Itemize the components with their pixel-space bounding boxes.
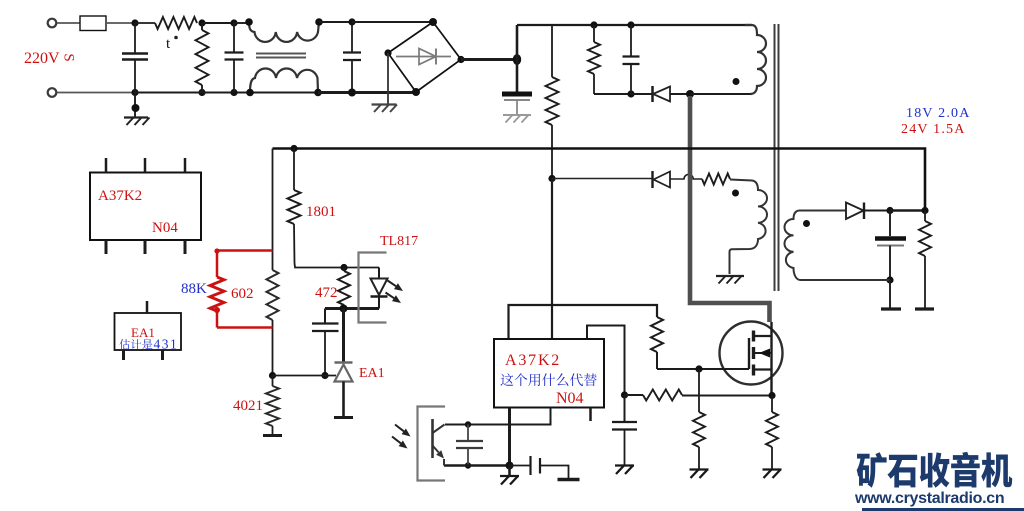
- wire: [516, 25, 519, 60]
- svg-text:431: 431: [154, 337, 179, 352]
- node B+: [513, 54, 521, 65]
- shunt regulator EA1 (431): [342, 309, 345, 363]
- transformer core: [774, 24, 776, 291]
- ground (C10): [615, 464, 634, 466]
- svg-text:A37K2: A37K2: [505, 352, 561, 369]
- resistor R13 (source): [771, 396, 773, 413]
- node: [506, 462, 514, 470]
- diode D4 (output rectifier): [846, 203, 864, 220]
- ground (source): [763, 468, 782, 470]
- wire: [690, 93, 750, 95]
- dot (aux polarity): [732, 190, 739, 197]
- resistor R14 88K (red mod): [217, 249, 273, 251]
- dot (primary polarity): [733, 78, 740, 85]
- optocoupler U2 phototransistor: [418, 407, 446, 481]
- wire: [800, 279, 890, 281]
- diode D3 (aux rectifier): [651, 171, 653, 188]
- terminal (out-): [881, 307, 901, 310]
- wire: [352, 21, 433, 23]
- IC U3 A37K2: [494, 339, 604, 408]
- resistor R7 602: [267, 270, 279, 320]
- resistor R11 (gate pulldown): [698, 369, 700, 412]
- transformer T1 primary: [745, 25, 766, 94]
- wire: [552, 178, 652, 180]
- ground (IC): [508, 466, 511, 476]
- node: [321, 372, 328, 379]
- node: [131, 19, 138, 26]
- resistor R9 1801: [293, 149, 295, 191]
- wire: [444, 464, 510, 467]
- wire: [106, 22, 135, 24]
- node: [230, 19, 237, 26]
- wire: [135, 92, 318, 94]
- ground (bulk): [503, 114, 531, 116]
- node: [340, 305, 348, 313]
- wire (gate drive): [509, 305, 658, 339]
- dot (secondary polarity): [803, 220, 810, 227]
- IC box A37K2 N04 (reference): [90, 173, 201, 241]
- wire: [273, 375, 337, 377]
- pin (U3 fb): [445, 408, 551, 425]
- wire: [594, 93, 631, 95]
- svg-text:4021: 4021: [233, 398, 263, 414]
- terminal J1 (line): [48, 19, 57, 28]
- capacitor C5 (snubber): [630, 25, 632, 56]
- LED D5: [378, 268, 380, 279]
- wire: [319, 21, 352, 23]
- ground (aux): [716, 275, 744, 277]
- resistor R6 (load): [924, 211, 926, 222]
- capacitor C3: [351, 22, 353, 52]
- wire (VCC to IC): [551, 179, 553, 340]
- wire: [57, 92, 135, 94]
- wire (feedback rail): [273, 149, 926, 211]
- wire: [890, 209, 925, 212]
- node: [921, 207, 928, 214]
- pin (U3 nc): [589, 408, 592, 422]
- svg-text:S: S: [61, 53, 77, 61]
- node: [340, 264, 347, 271]
- svg-text:EA1: EA1: [131, 325, 155, 340]
- wire (sense pin): [587, 326, 625, 396]
- svg-text:EA1: EA1: [359, 366, 385, 381]
- node source: [768, 392, 775, 399]
- node: [590, 21, 597, 28]
- wire (hop over SW): [670, 174, 702, 179]
- svg-text:N04: N04: [556, 390, 584, 407]
- terminal (out+): [915, 307, 934, 310]
- diode D2 (clamp): [631, 93, 652, 95]
- pin (U3 gnd): [508, 408, 511, 466]
- svg-text:N04: N04: [152, 220, 178, 236]
- svg-text:1801: 1801: [306, 204, 336, 220]
- node: [886, 276, 893, 283]
- transformer T1 secondary: [785, 211, 801, 281]
- thermistor RT (t deg): [135, 22, 155, 24]
- node gate: [695, 365, 702, 372]
- optocoupler U2 LED side: [359, 253, 387, 323]
- light arrows: [395, 425, 404, 432]
- capacitor C7: [324, 309, 326, 324]
- wire: [799, 210, 846, 212]
- IC box EA1 431 (reference): [115, 313, 182, 350]
- resistor R4 (snubber): [593, 25, 595, 42]
- ground (gate): [690, 468, 709, 470]
- wire: [682, 395, 772, 397]
- node: [290, 145, 297, 152]
- wire: [272, 320, 274, 376]
- bridge rectifier BR1: [388, 22, 461, 92]
- wire: [57, 22, 80, 24]
- resistor R8 4021: [272, 376, 274, 387]
- wire: [461, 58, 517, 61]
- svg-text:602: 602: [231, 286, 254, 302]
- ground (input): [134, 93, 136, 118]
- svg-text:220V: 220V: [24, 50, 60, 67]
- capacitor C2: [233, 23, 235, 52]
- node: [627, 90, 634, 97]
- capacitor C1: [134, 23, 136, 53]
- node: [198, 19, 205, 26]
- wire (divider top): [272, 149, 274, 271]
- resistor R12 (sense): [625, 394, 644, 396]
- resistor R3 (startup): [551, 25, 553, 77]
- terminal J2 (neutral): [48, 88, 57, 97]
- resistor R10 (gate): [651, 317, 663, 352]
- svg-text:24V 1.5A: 24V 1.5A: [901, 122, 966, 137]
- node sense: [621, 391, 628, 398]
- transformer T1 aux winding: [730, 180, 768, 275]
- resistor R15 472: [338, 271, 350, 305]
- svg-text:18V 2.0A: 18V 2.0A: [906, 106, 971, 121]
- capacitor C8: [467, 425, 469, 441]
- wire (switch node, thick): [690, 96, 770, 322]
- svg-text:www.crystalradio.cn: www.crystalradio.cn: [854, 490, 1004, 507]
- wire (thick): [325, 307, 379, 310]
- transistor Q1 (MOSFET): [720, 322, 783, 385]
- bulk capacitor C4: [516, 60, 519, 92]
- node: [245, 18, 253, 26]
- resistor R5 (aux): [702, 174, 730, 185]
- resistor R2 (VDR): [201, 23, 203, 30]
- wire: [234, 22, 249, 24]
- output capacitor C6: [889, 211, 891, 237]
- wire: [295, 263, 380, 268]
- node: [886, 207, 893, 214]
- node VCC: [548, 175, 555, 182]
- fuse F1: [80, 16, 106, 31]
- node: [269, 372, 276, 379]
- svg-text:TL817: TL817: [380, 234, 418, 249]
- common-mode choke L1: [249, 22, 319, 42]
- wire: [656, 352, 658, 369]
- node SW: [686, 90, 694, 98]
- capacitor C10: [624, 395, 626, 422]
- capacitor C9: [510, 465, 531, 467]
- ground (bridge): [387, 53, 389, 104]
- svg-text:A37K2: A37K2: [98, 188, 142, 204]
- node: [465, 421, 471, 427]
- svg-text:88K: 88K: [181, 281, 207, 297]
- watermark crystalradio logo: [857, 452, 887, 488]
- LED arrows: [388, 281, 397, 287]
- wire (thick bottom): [318, 91, 417, 94]
- svg-text:472: 472: [315, 285, 338, 301]
